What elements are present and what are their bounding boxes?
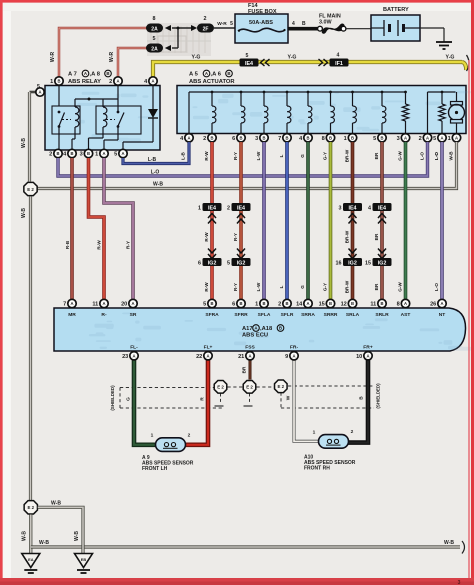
svg-text:R-Y: R-Y bbox=[126, 240, 132, 249]
svg-text:3.0W: 3.0W bbox=[319, 20, 332, 26]
svg-text:5: 5 bbox=[114, 152, 117, 158]
svg-text:11: 11 bbox=[92, 302, 98, 308]
svg-text:FSS: FSS bbox=[245, 345, 255, 351]
actuator resistor 2 bbox=[441, 91, 444, 94]
svg-text:BR: BR bbox=[242, 366, 247, 373]
thick battery feed wire bbox=[288, 27, 318, 31]
relay internal switch2 bbox=[117, 111, 120, 114]
svg-text:B: B bbox=[87, 151, 90, 156]
svg-text:2: 2 bbox=[419, 136, 422, 142]
svg-text:14: 14 bbox=[296, 302, 303, 308]
svg-text:IE4: IE4 bbox=[237, 205, 245, 211]
svg-text:G-Y: G-Y bbox=[323, 283, 328, 291]
wire R-Y relay 1A to ECU SR bbox=[104, 158, 133, 308]
svg-text:2: 2 bbox=[49, 152, 52, 158]
svg-text:3: 3 bbox=[339, 205, 342, 211]
relay pin 4B bbox=[68, 149, 76, 157]
svg-text:A: A bbox=[440, 135, 443, 140]
svg-text:10: 10 bbox=[356, 354, 362, 360]
svg-text:W-B: W-B bbox=[444, 540, 454, 546]
svg-text:2: 2 bbox=[203, 136, 206, 142]
connector IG2 pin 16 on SRLA wire bbox=[349, 249, 357, 254]
wire W-B E2 down left side bbox=[29, 197, 32, 501]
relay pin 3B bbox=[84, 149, 92, 157]
svg-text:A: A bbox=[455, 135, 458, 140]
wire BR ECU FSS to E2 bbox=[249, 351, 252, 380]
connector 2A (pin 8) oval bbox=[146, 24, 163, 33]
svg-text:26: 26 bbox=[430, 302, 436, 308]
svg-text:BR: BR bbox=[374, 233, 379, 240]
relay pin 1A bbox=[100, 149, 108, 157]
wire W-R to fuse box bbox=[214, 27, 235, 29]
svg-text:E 2: E 2 bbox=[278, 384, 285, 389]
svg-text:A: A bbox=[206, 353, 209, 358]
svg-text:50A-ABS: 50A-ABS bbox=[249, 20, 273, 26]
actuator left bus bbox=[189, 91, 406, 93]
svg-text:9: 9 bbox=[285, 354, 288, 360]
actuator pump motor bbox=[456, 92, 458, 103]
svg-text:2: 2 bbox=[204, 16, 207, 22]
svg-text:IE4: IE4 bbox=[245, 61, 253, 67]
svg-text:SFLA: SFLA bbox=[258, 312, 271, 318]
relay pin 5A bottom bbox=[119, 149, 127, 157]
svg-text:W-B: W-B bbox=[21, 208, 27, 218]
wire W-B E2 down to ground bbox=[29, 515, 32, 554]
node E2 left bbox=[24, 182, 37, 195]
wire R-W relay 3B to ECU R- bbox=[89, 158, 105, 308]
svg-text:E 2: E 2 bbox=[217, 385, 224, 390]
svg-text:A: A bbox=[131, 301, 134, 306]
relay internal: switch 2 box bbox=[96, 106, 141, 134]
shield dashes FR sensor bbox=[288, 385, 374, 387]
svg-text:6: 6 bbox=[232, 136, 235, 142]
wire BR-W actuator to ECU SRLA bbox=[351, 142, 355, 309]
diode in relay bbox=[152, 86, 154, 110]
wire B ECU FR+ to speed sensor bbox=[347, 351, 368, 443]
relay internal bottom leads bbox=[58, 134, 60, 150]
svg-text:W-R: W-R bbox=[217, 21, 227, 27]
svg-text:12: 12 bbox=[341, 302, 347, 308]
wire R-W actuator to ECU SFRA bbox=[210, 142, 214, 309]
svg-text:,A 8: ,A 8 bbox=[90, 72, 101, 78]
wire R ECU FL+ to speed sensor bbox=[184, 351, 208, 445]
svg-text:23: 23 bbox=[122, 354, 128, 360]
node E2 bbox=[275, 380, 288, 393]
svg-text:Y-G: Y-G bbox=[446, 55, 455, 61]
svg-text:3: 3 bbox=[255, 136, 258, 142]
svg-text:A: A bbox=[292, 353, 295, 358]
svg-text:5: 5 bbox=[373, 136, 376, 142]
svg-text:B: B bbox=[351, 301, 354, 306]
svg-text:E 2: E 2 bbox=[28, 505, 35, 510]
wire R-B relay 4B to ECU MR bbox=[70, 158, 74, 308]
svg-text:AST: AST bbox=[401, 312, 411, 318]
actuator A5/A6 box bbox=[177, 86, 466, 134]
svg-text:A: A bbox=[306, 301, 309, 306]
wire G actuator to ECU SRRA bbox=[306, 142, 310, 309]
svg-text:A: A bbox=[404, 135, 407, 140]
svg-text:A: A bbox=[132, 353, 135, 358]
svg-text:BR-W: BR-W bbox=[345, 230, 350, 243]
connector 2F (pin 2) oval bbox=[191, 25, 197, 31]
relay pin 5A left bbox=[30, 91, 37, 94]
node E2 bottom bbox=[24, 501, 37, 514]
svg-text:8: 8 bbox=[397, 302, 400, 308]
relay internal coil1 bbox=[74, 99, 76, 107]
svg-text:W-B: W-B bbox=[51, 501, 61, 507]
svg-text:Y-G: Y-G bbox=[192, 55, 201, 61]
svg-text:SRRA: SRRA bbox=[301, 312, 315, 318]
svg-text:16: 16 bbox=[336, 260, 342, 266]
svg-text:L-B: L-B bbox=[181, 151, 186, 159]
svg-text:BR: BR bbox=[374, 283, 379, 290]
svg-text:A17: A17 bbox=[242, 326, 253, 332]
svg-text:SFRR: SFRR bbox=[234, 312, 248, 318]
ghost faded relay block (bleed-through) bbox=[147, 23, 211, 56]
relay internal: pin2 lead bbox=[117, 86, 119, 113]
svg-text:A: A bbox=[440, 301, 443, 306]
svg-text:22: 22 bbox=[196, 354, 202, 360]
relay internal coil2 bbox=[102, 99, 104, 107]
svg-text:A: A bbox=[116, 79, 119, 84]
svg-text:B: B bbox=[227, 71, 230, 76]
svg-text:1: 1 bbox=[344, 136, 347, 142]
svg-text:A: A bbox=[248, 353, 251, 358]
svg-text:IE4: IE4 bbox=[348, 205, 356, 211]
node E2 bbox=[214, 381, 227, 394]
svg-text:MR: MR bbox=[68, 312, 76, 318]
svg-text:B: B bbox=[57, 79, 60, 84]
svg-text:L-W: L-W bbox=[256, 282, 261, 291]
svg-text:A: A bbox=[404, 301, 407, 306]
connector IE4 pin 1 on SFRA wire bbox=[203, 203, 222, 211]
svg-text:1: 1 bbox=[198, 205, 201, 211]
svg-text:3: 3 bbox=[80, 152, 83, 158]
svg-text:3: 3 bbox=[458, 580, 461, 585]
wire L actuator to ECU SFLR bbox=[285, 142, 289, 309]
svg-text:B: B bbox=[239, 135, 242, 140]
svg-text:ABS ECU: ABS ECU bbox=[242, 333, 268, 339]
svg-text:R-B: R-B bbox=[65, 240, 71, 249]
svg-text:L: L bbox=[279, 285, 284, 288]
wire L-O actuator to ECU NT bbox=[440, 142, 444, 309]
svg-text:R-Y: R-Y bbox=[233, 152, 238, 160]
svg-text:SRLR: SRLR bbox=[375, 312, 389, 318]
svg-text:R-W: R-W bbox=[204, 151, 209, 161]
svg-text:21: 21 bbox=[238, 354, 244, 360]
wire W-B bottom horizontal bbox=[31, 545, 460, 548]
svg-text:EA: EA bbox=[28, 557, 34, 562]
svg-text:W-B: W-B bbox=[153, 182, 163, 188]
svg-text:B: B bbox=[210, 135, 213, 140]
speed sensor A9 front LH bbox=[156, 438, 186, 452]
wire G ECU FL- to speed sensor bbox=[134, 351, 157, 445]
svg-text:A 5: A 5 bbox=[189, 72, 199, 78]
svg-text:1: 1 bbox=[50, 79, 53, 85]
svg-text:W-B: W-B bbox=[449, 151, 454, 161]
svg-text:R-Y: R-Y bbox=[233, 233, 238, 241]
ECU A17/A18 box bbox=[54, 308, 466, 351]
svg-text:5: 5 bbox=[203, 302, 206, 308]
svg-text:B: B bbox=[106, 71, 109, 76]
svg-text:1: 1 bbox=[95, 152, 98, 158]
relay pin 1B bbox=[55, 77, 63, 85]
shield dashes between E2 nodes bbox=[228, 386, 244, 388]
svg-text:FR+: FR+ bbox=[363, 345, 373, 351]
continuation arc W-B bbox=[462, 541, 465, 554]
relay internal switch1 bbox=[58, 111, 61, 114]
svg-text:B: B bbox=[306, 135, 309, 140]
svg-text:1: 1 bbox=[313, 429, 316, 435]
svg-text:L-O: L-O bbox=[434, 283, 439, 291]
shield drain ticks bbox=[220, 394, 222, 405]
svg-text:FRONT LH: FRONT LH bbox=[142, 466, 168, 472]
svg-text:SR: SR bbox=[130, 312, 137, 318]
svg-text:FRONT RH: FRONT RH bbox=[304, 465, 330, 471]
svg-text:NT: NT bbox=[439, 312, 446, 318]
wire L-O relay pin 2B to actuator pin 2A bbox=[58, 142, 428, 176]
svg-text:W-R: W-R bbox=[109, 52, 115, 63]
svg-text:A: A bbox=[151, 79, 154, 84]
wire BR actuator to ECU SRLR bbox=[380, 142, 384, 309]
svg-text:B: B bbox=[351, 135, 354, 140]
svg-text:R: R bbox=[200, 397, 206, 401]
svg-text:E 2: E 2 bbox=[246, 385, 253, 390]
wire W-B E2 branch right bbox=[38, 507, 83, 545]
svg-text:L-O: L-O bbox=[434, 152, 439, 160]
actuator resistor 1 bbox=[404, 91, 407, 94]
svg-text:A: A bbox=[121, 151, 124, 156]
svg-text:L-B: L-B bbox=[148, 157, 157, 163]
svg-text:L-W: L-W bbox=[256, 151, 261, 160]
svg-text:1: 1 bbox=[448, 136, 451, 142]
ground EB bbox=[75, 554, 93, 568]
relay pin 2A bbox=[114, 77, 122, 85]
wire W-R from ABS relay pin 2 to junction connector bbox=[118, 48, 147, 83]
connector IF1 on Y-G (pin 4) bbox=[319, 59, 323, 66]
svg-text:SRLA: SRLA bbox=[346, 312, 360, 318]
svg-text:B: B bbox=[380, 301, 383, 306]
connector IG2 pin 6 on SFRA wire bbox=[208, 249, 216, 254]
shield dashes FL sensor bbox=[120, 387, 214, 389]
wire to ground EB bbox=[81, 545, 84, 554]
relay internal top link bbox=[75, 98, 118, 100]
connector IG2 pin 15 on SRLR wire bbox=[378, 249, 386, 254]
svg-text:E 2: E 2 bbox=[27, 187, 34, 192]
svg-text:G: G bbox=[126, 397, 132, 401]
continuation arc bbox=[467, 55, 470, 71]
svg-text:EB: EB bbox=[81, 557, 87, 562]
svg-text:4: 4 bbox=[292, 21, 295, 27]
svg-text:2A: 2A bbox=[151, 47, 158, 53]
svg-text:R-W: R-W bbox=[204, 232, 209, 242]
connector 2A (pin 5) oval bbox=[146, 44, 163, 53]
svg-text:G-Y: G-Y bbox=[323, 152, 328, 160]
svg-text:4: 4 bbox=[337, 53, 340, 59]
svg-text:8: 8 bbox=[322, 136, 325, 142]
svg-text:G: G bbox=[300, 154, 305, 158]
connector IE4 on Y-G (pin 5) bbox=[240, 59, 259, 67]
svg-text:B: B bbox=[302, 21, 306, 27]
svg-text:IG2: IG2 bbox=[237, 260, 246, 266]
svg-text:5: 5 bbox=[246, 53, 249, 59]
svg-text:B: B bbox=[285, 135, 288, 140]
svg-text:B: B bbox=[262, 301, 265, 306]
svg-text:2: 2 bbox=[188, 433, 191, 439]
svg-text:A: A bbox=[426, 135, 429, 140]
svg-text:20: 20 bbox=[121, 302, 127, 308]
svg-text:B: B bbox=[262, 135, 265, 140]
svg-text:2: 2 bbox=[278, 302, 281, 308]
svg-text:Y-G: Y-G bbox=[288, 55, 297, 61]
svg-text:IG2: IG2 bbox=[348, 260, 357, 266]
svg-text:,A18: ,A18 bbox=[260, 326, 273, 332]
svg-text:6: 6 bbox=[232, 302, 235, 308]
wire W-R from ABS relay pin 1 to junction connector bbox=[59, 28, 147, 83]
svg-text:1: 1 bbox=[151, 433, 154, 439]
svg-text:7: 7 bbox=[278, 136, 281, 142]
wire W ECU FR- to speed sensor bbox=[294, 351, 320, 441]
svg-text:2: 2 bbox=[227, 205, 230, 211]
svg-text:A: A bbox=[102, 301, 105, 306]
svg-text:4: 4 bbox=[368, 205, 371, 211]
svg-text:L: L bbox=[279, 154, 284, 157]
svg-text:15: 15 bbox=[365, 260, 371, 266]
svg-text:2A: 2A bbox=[151, 27, 158, 33]
svg-text:SFLR: SFLR bbox=[281, 312, 294, 318]
svg-text:B: B bbox=[56, 151, 59, 156]
speed sensor A10 front RH bbox=[319, 435, 349, 449]
wire Y-G main feed bbox=[153, 62, 462, 83]
svg-text:11: 11 bbox=[370, 302, 376, 308]
svg-text:BR: BR bbox=[374, 152, 379, 159]
svg-text:FL-: FL- bbox=[130, 345, 138, 351]
connector IE4 pin 4 on SRLR wire bbox=[373, 203, 392, 211]
svg-text:B: B bbox=[279, 326, 282, 331]
relay internal: switch 1 box bbox=[52, 106, 80, 134]
wire junction link bbox=[172, 27, 191, 29]
svg-text:A: A bbox=[366, 353, 369, 358]
svg-text:W-B: W-B bbox=[74, 531, 80, 541]
svg-text:1: 1 bbox=[255, 302, 258, 308]
wire L-B relay pin5 to actuator pin 4A bbox=[123, 142, 189, 164]
ECU top pins bbox=[68, 299, 76, 307]
svg-text:BR-W: BR-W bbox=[345, 149, 350, 162]
svg-text:BATTERY: BATTERY bbox=[383, 7, 409, 13]
svg-text:B: B bbox=[329, 135, 332, 140]
fuse box 50A ABS bbox=[235, 14, 288, 43]
svg-text:5: 5 bbox=[37, 84, 40, 90]
svg-text:(SHIELDED): (SHIELDED) bbox=[110, 385, 115, 411]
svg-text:5: 5 bbox=[153, 36, 156, 42]
svg-text:W-B: W-B bbox=[21, 138, 27, 148]
svg-text:B: B bbox=[239, 301, 242, 306]
svg-text:B: B bbox=[329, 301, 332, 306]
svg-text:3: 3 bbox=[397, 136, 400, 142]
page frame red border bbox=[0, 0, 474, 3]
svg-text:5: 5 bbox=[433, 136, 436, 142]
svg-text:ABS ACTUATOR: ABS ACTUATOR bbox=[189, 79, 235, 85]
svg-text:,A 6: ,A 6 bbox=[211, 72, 222, 78]
svg-text:B: B bbox=[70, 151, 73, 156]
svg-text:L-O: L-O bbox=[151, 170, 160, 176]
svg-text:R-: R- bbox=[101, 312, 107, 318]
svg-text:ABS RELAY: ABS RELAY bbox=[68, 79, 101, 85]
svg-text:G-W: G-W bbox=[398, 282, 403, 292]
svg-text:15: 15 bbox=[319, 302, 325, 308]
svg-text:SFRA: SFRA bbox=[205, 312, 219, 318]
connector IE4 pin 3 on SRLA wire bbox=[343, 203, 362, 211]
battery ground bbox=[420, 27, 444, 29]
ECU bottom pins bbox=[130, 352, 138, 360]
svg-text:A: A bbox=[102, 151, 105, 156]
relay pin 4A bbox=[149, 77, 157, 85]
svg-text:(SHIELDED): (SHIELDED) bbox=[376, 383, 381, 409]
svg-text:FL+: FL+ bbox=[204, 345, 213, 351]
svg-text:B: B bbox=[210, 301, 213, 306]
relay A7/A8 box bbox=[45, 86, 160, 151]
svg-text:SRRR: SRRR bbox=[324, 312, 338, 318]
svg-text:6: 6 bbox=[198, 260, 201, 266]
svg-text:A 7: A 7 bbox=[68, 72, 77, 78]
svg-text:G: G bbox=[300, 285, 305, 289]
wire R-Y actuator to ECU SFRR bbox=[239, 142, 243, 309]
connector IE4 pin 2 on SFRR wire bbox=[232, 203, 251, 211]
svg-text:7: 7 bbox=[63, 302, 66, 308]
svg-text:W-R: W-R bbox=[50, 52, 56, 63]
svg-text:IF1: IF1 bbox=[335, 61, 343, 67]
wire W-B actuator pin 1A to E2 bbox=[37, 142, 457, 189]
svg-text:5: 5 bbox=[230, 21, 233, 27]
actuator solenoid coils bbox=[211, 91, 214, 94]
svg-text:W-B: W-B bbox=[22, 531, 28, 541]
wire G-Y actuator to ECU SRRR bbox=[329, 142, 333, 309]
wire W-B relay pin 5A down to E2 bbox=[28, 92, 31, 182]
svg-text:FR-: FR- bbox=[290, 345, 299, 351]
wire L-W actuator to ECU SFLA bbox=[262, 142, 266, 309]
svg-text:2: 2 bbox=[109, 79, 112, 85]
svg-text:IE4: IE4 bbox=[208, 205, 216, 211]
svg-text:B: B bbox=[285, 301, 288, 306]
svg-text:IG2: IG2 bbox=[378, 260, 387, 266]
svg-text:A: A bbox=[70, 301, 73, 306]
svg-text:2: 2 bbox=[351, 429, 354, 435]
svg-text:IG2: IG2 bbox=[208, 260, 217, 266]
wire G-W actuator to ECU AST bbox=[404, 142, 408, 309]
svg-text:R-Y: R-Y bbox=[233, 283, 238, 291]
svg-text:R-W: R-W bbox=[97, 240, 103, 250]
svg-text:W: W bbox=[286, 395, 292, 400]
node E2 bbox=[243, 381, 256, 394]
svg-text:W-B: W-B bbox=[39, 540, 49, 546]
actuator right bus bbox=[428, 91, 456, 93]
connector IG2 pin 5 on SFRR wire bbox=[237, 249, 245, 254]
svg-text:IE4: IE4 bbox=[378, 205, 386, 211]
relay pin 2B bbox=[54, 149, 62, 157]
actuator bottom pins bbox=[185, 134, 193, 142]
ground EA bbox=[22, 554, 40, 568]
svg-text:L-O: L-O bbox=[420, 152, 425, 160]
svg-text:A: A bbox=[187, 135, 190, 140]
svg-text:5: 5 bbox=[227, 260, 230, 266]
svg-text:2F: 2F bbox=[203, 27, 209, 33]
svg-text:G-W: G-W bbox=[398, 151, 403, 161]
svg-text:B: B bbox=[359, 396, 365, 400]
svg-text:A: A bbox=[38, 90, 41, 95]
svg-text:8: 8 bbox=[153, 16, 156, 22]
svg-text:R-W: R-W bbox=[204, 282, 209, 292]
svg-text:B: B bbox=[380, 135, 383, 140]
